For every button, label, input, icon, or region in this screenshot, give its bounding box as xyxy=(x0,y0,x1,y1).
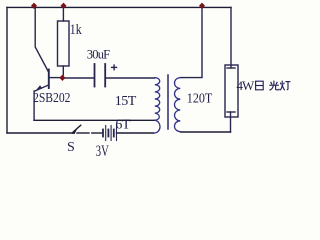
svg-text:4W: 4W xyxy=(237,78,256,93)
svg-text:S: S xyxy=(67,140,75,155)
svg-text:6T: 6T xyxy=(115,117,130,132)
svg-text:120T: 120T xyxy=(187,91,213,106)
svg-text:2SB202: 2SB202 xyxy=(33,90,71,105)
svg-text:3V: 3V xyxy=(96,143,109,160)
svg-text:15T: 15T xyxy=(115,94,137,109)
svg-text:30uF: 30uF xyxy=(87,47,110,61)
svg-text:1k: 1k xyxy=(70,22,82,38)
